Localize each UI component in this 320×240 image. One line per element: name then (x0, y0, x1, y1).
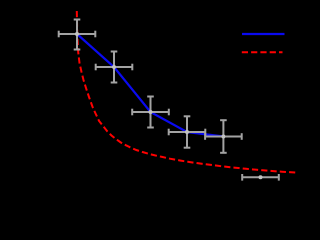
error bar point 1 (59, 20, 96, 50)
error bar point 4 (169, 116, 206, 147)
legend blue solid sample (242, 33, 285, 35)
error bar point 3 (132, 97, 169, 128)
blue data line (77, 34, 223, 137)
data point markers (75, 32, 263, 179)
error bar point 2 (96, 52, 133, 83)
red dashed fit curve (77, 11, 298, 173)
error bar point 5 (205, 120, 242, 153)
error bar point 6 (horizontal only) (242, 174, 279, 181)
legend red dashed sample (242, 51, 283, 53)
error bars group (59, 20, 279, 181)
